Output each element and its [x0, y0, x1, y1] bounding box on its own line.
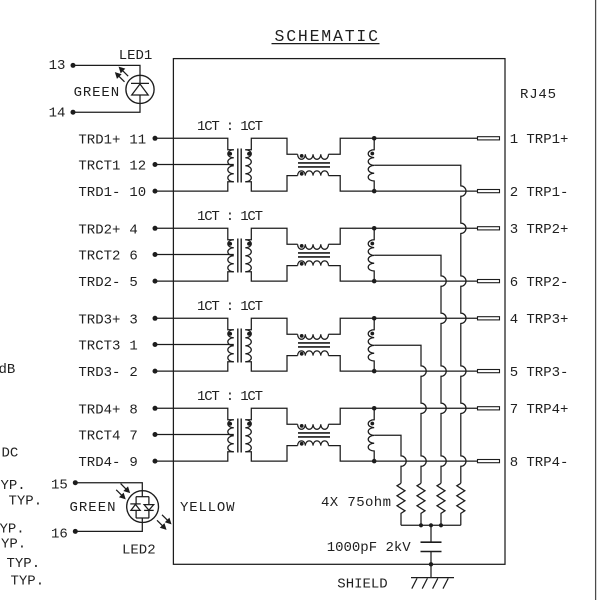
pin dot TRD3- [153, 369, 158, 374]
choke L2 bottom winding phase dot [300, 262, 304, 266]
pin 16 dot [73, 529, 78, 534]
transformer T3 secondary winding [245, 330, 251, 362]
svg-text:6: 6 [129, 249, 137, 265]
LED2 right branch wire [148, 497, 150, 518]
svg-text:11: 11 [129, 132, 146, 148]
pin dot TRD4+ [153, 406, 158, 411]
wire TRD3- to T3 primary bottom [155, 362, 234, 371]
svg-text:2: 2 [129, 365, 137, 381]
wire TRD4- to T4 primary bottom [155, 452, 234, 461]
pin dot TRD2+ [153, 226, 158, 231]
svg-text:9: 9 [129, 455, 137, 471]
RJ45 pad pin 3 [478, 227, 500, 230]
choke L3 bottom winding phase dot [300, 352, 304, 356]
termination winding A1 phase dot [370, 152, 374, 156]
svg-text:TRD1+: TRD1+ [78, 132, 120, 148]
choke L1 top winding [298, 154, 329, 159]
svg-text:TRP4-: TRP4- [526, 455, 568, 471]
svg-text:4: 4 [510, 312, 518, 328]
wire termination A4 center tap to resistor R4 (with wire hops) [374, 435, 406, 483]
svg-text:TRD1-: TRD1- [78, 185, 120, 201]
termination winding A4 phase dot [370, 422, 374, 426]
svg-text:8: 8 [510, 455, 518, 471]
svg-text:TRP1-: TRP1- [526, 185, 568, 201]
choke L1 core [298, 162, 330, 164]
svg-text:1: 1 [510, 132, 518, 148]
wire TRD4+ to T4 primary top [155, 408, 234, 420]
wire pin13 to LED1 [73, 65, 140, 83]
junction dot top of termination winding A2 [372, 226, 377, 231]
transformer T2 secondary phase dot [247, 242, 251, 246]
wire shield to ground [430, 564, 432, 577]
svg-text:15: 15 [51, 478, 68, 494]
choke L2 top winding [298, 244, 329, 249]
transformer T2 core [237, 239, 239, 273]
wire TRD3+ to T3 primary top [155, 318, 234, 330]
pin dot TRCT1 [153, 162, 158, 167]
transformer T1 secondary phase dot [247, 152, 251, 156]
svg-text:TRD2-: TRD2- [78, 275, 120, 291]
svg-text:TRCT1: TRCT1 [78, 159, 120, 175]
wire bus to capacitor C1 [430, 525, 432, 542]
junction dot bottom of termination winding A3 [372, 369, 377, 374]
svg-text:4X 75ohm: 4X 75ohm [321, 495, 391, 511]
LED1 circle [126, 75, 154, 103]
svg-text:5: 5 [129, 275, 137, 291]
svg-text:TRCT2: TRCT2 [78, 249, 120, 265]
pin dot TRD2- [153, 279, 158, 284]
termination winding A3 phase dot [370, 332, 374, 336]
svg-text:TRD3+: TRD3+ [78, 312, 120, 328]
choke L2 bottom winding [298, 261, 329, 266]
transformer T2 primary phase dot [228, 242, 232, 246]
choke L4 top winding [298, 424, 329, 429]
transformer T4 secondary winding [245, 420, 251, 452]
choke L2 core [298, 252, 330, 254]
RJ45 pad pin 7 [478, 407, 500, 410]
LED2 light arrow d [157, 520, 163, 526]
wire TRCT4 to T4 primary center tap [155, 434, 234, 436]
LED1 diode triangle [132, 84, 149, 95]
choke L2 top winding phase dot [300, 244, 304, 248]
pin dot TRD1+ [153, 136, 158, 141]
choke L1 bottom winding phase dot [300, 172, 304, 176]
LED1 light arrow a [119, 76, 125, 82]
RJ45 pad pin 6 [478, 280, 500, 283]
choke L4 bottom winding phase dot [300, 442, 304, 446]
transformer T4 primary winding [228, 420, 234, 452]
svg-text:1CT : 1CT: 1CT : 1CT [197, 119, 263, 135]
termination winding A4 [368, 408, 374, 461]
termination winding A3 [368, 318, 374, 371]
wire choke L3 top to RJ45 pad 4 [329, 318, 478, 334]
transformer T4 core [237, 419, 239, 453]
wire T1 secondary bottom to choke L1 [245, 176, 297, 192]
wire T2 secondary bottom to choke L2 [245, 266, 297, 282]
svg-text:TRP2-: TRP2- [526, 275, 568, 291]
choke L3 bottom winding [298, 351, 329, 356]
choke L4 top winding phase dot [300, 424, 304, 428]
svg-text:YP.: YP. [0, 521, 25, 537]
pin dot TRCT2 [153, 252, 158, 257]
RJ45 pad pin 8 [478, 460, 500, 463]
svg-text:TYP.: TYP. [9, 493, 43, 509]
svg-text:TRP1+: TRP1+ [526, 132, 568, 148]
transformer T1 primary phase dot [228, 152, 232, 156]
transformer T3 primary winding [228, 330, 234, 362]
svg-text:16: 16 [51, 526, 68, 542]
wire choke L2 top to RJ45 pad 3 [329, 228, 478, 244]
pin dot TRCT4 [153, 432, 158, 437]
termination winding A1 [368, 138, 374, 191]
svg-text:LED2: LED2 [122, 542, 156, 558]
transformer T4 primary phase dot [228, 422, 232, 426]
svg-text:dB: dB [0, 362, 15, 378]
svg-text:8: 8 [129, 402, 137, 418]
junction dot top of termination winding A4 [372, 406, 377, 411]
choke L3 top winding [298, 334, 329, 339]
wire T3 secondary top to choke L3 [245, 318, 297, 334]
wire choke L1 bottom to RJ45 pad 2 [329, 176, 478, 192]
bus junction dot b [429, 523, 433, 527]
svg-text:TRP3+: TRP3+ [526, 312, 568, 328]
LED2 light arrow b [116, 490, 122, 496]
junction dot bottom of termination winding A1 [372, 189, 377, 194]
RJ45 pad pin 2 [478, 190, 500, 193]
svg-text:TYP.: TYP. [7, 556, 41, 572]
wire TRD2+ to T2 primary top [155, 228, 234, 240]
wire pin15 to LED2 [75, 483, 142, 497]
svg-text:TRP3-: TRP3- [526, 365, 568, 381]
transformer T4 secondary phase dot [247, 422, 251, 426]
LED1 cathode bar [131, 82, 149, 84]
wire choke L2 bottom to RJ45 pad 6 [329, 266, 478, 282]
pin dot TRCT3 [153, 342, 158, 347]
svg-text:YP.: YP. [1, 537, 26, 553]
svg-text:6: 6 [510, 275, 518, 291]
svg-text:7: 7 [510, 402, 518, 418]
choke L4 core [298, 432, 330, 434]
wire pin14 to LED1 [73, 95, 140, 112]
wire TRD2- to T2 primary bottom [155, 272, 234, 281]
wire termination A2 center tap to resistor R2 (with wire hops) [374, 255, 446, 483]
svg-text:1CT : 1CT: 1CT : 1CT [197, 299, 263, 315]
RJ45 pad pin 5 [478, 370, 500, 373]
transformer T1 core [237, 149, 239, 183]
svg-text:LED1: LED1 [119, 48, 153, 64]
choke L1 bottom winding [298, 171, 329, 176]
termination winding A2 phase dot [370, 242, 374, 246]
pin dot TRD1- [153, 189, 158, 194]
RJ45 pad pin 1 [478, 137, 500, 140]
svg-text:TRP4+: TRP4+ [526, 402, 568, 418]
wire choke L4 bottom to RJ45 pad 8 [329, 446, 478, 462]
bus junction dot a [419, 523, 423, 527]
transformer T2 primary winding [228, 240, 234, 272]
pin dot TRD4- [153, 459, 158, 464]
LED2 yellow diode (down) [144, 505, 154, 511]
svg-text:TRP2+: TRP2+ [526, 222, 568, 238]
svg-text:7: 7 [129, 429, 137, 445]
wire T3 secondary bottom to choke L3 [245, 356, 297, 372]
wire choke L4 top to RJ45 pad 7 [329, 408, 478, 424]
resistor bottom bus wire [401, 524, 461, 526]
wire termination A1 center tap to resistor R1 (with wire hops) [374, 165, 466, 483]
svg-text:12: 12 [129, 159, 146, 175]
RJ45 pad pin 4 [478, 317, 500, 320]
wire choke L3 bottom to RJ45 pad 5 [329, 356, 478, 372]
svg-text:RJ45: RJ45 [520, 87, 556, 103]
junction dot on shield line [429, 562, 433, 566]
svg-text:3: 3 [510, 222, 518, 238]
svg-text:YELLOW: YELLOW [180, 500, 235, 516]
svg-text:14: 14 [49, 105, 66, 121]
svg-text:1CT : 1CT: 1CT : 1CT [197, 209, 263, 225]
svg-text:3: 3 [129, 312, 137, 328]
junction dot top of termination winding A3 [372, 316, 377, 321]
capacitor C1 [421, 541, 442, 543]
transformer T1 secondary winding [245, 150, 251, 182]
pin 14 dot [71, 110, 76, 115]
svg-text:TRD4-: TRD4- [78, 455, 120, 471]
LED2 circle [127, 491, 159, 523]
transformer T2 secondary winding [245, 240, 251, 272]
svg-text:GREEN: GREEN [70, 500, 116, 516]
transformer T3 core [237, 329, 239, 363]
wire TRD1- to T1 primary bottom [155, 182, 234, 191]
svg-text:TRD2+: TRD2+ [78, 222, 120, 238]
transformer T3 secondary phase dot [247, 332, 251, 336]
transformer T1 primary winding [228, 150, 234, 182]
choke L4 bottom winding [298, 441, 329, 446]
LED2 light arrow c [162, 515, 168, 521]
transformer T3 primary phase dot [228, 332, 232, 336]
wire T2 secondary top to choke L2 [245, 228, 297, 244]
LED2 light arrow a [121, 484, 127, 490]
termination winding A2 [368, 228, 374, 281]
svg-text:1: 1 [129, 339, 137, 355]
svg-text:TRCT4: TRCT4 [78, 429, 120, 445]
svg-text:1000pF 2kV: 1000pF 2kV [327, 540, 412, 556]
junction dot top of termination winding A1 [372, 136, 377, 141]
svg-text:YP.: YP. [1, 478, 26, 494]
wire TRD1+ to T1 primary top [155, 138, 234, 150]
bus junction dot c [439, 523, 443, 527]
svg-text:4: 4 [129, 222, 137, 238]
svg-text:TRCT3: TRCT3 [78, 339, 120, 355]
pin dot TRD3+ [153, 316, 158, 321]
svg-text:5: 5 [510, 365, 518, 381]
LED2 bottom rail [136, 517, 149, 519]
resistor R2 75ohm [437, 483, 445, 525]
svg-text:TYP.: TYP. [11, 573, 45, 589]
pin 15 dot [73, 480, 78, 485]
svg-text:2: 2 [510, 185, 518, 201]
page border line [595, 0, 597, 600]
resistor R4 75ohm [397, 483, 405, 525]
component outline box [173, 59, 505, 565]
wire pin16 to LED2 [75, 518, 142, 531]
choke L3 core [298, 342, 330, 344]
wire choke L1 top to RJ45 pad 1 [329, 138, 478, 154]
choke L1 top winding phase dot [300, 154, 304, 158]
title underline [272, 43, 380, 45]
junction dot bottom of termination winding A2 [372, 279, 377, 284]
LED1 light arrow b [122, 70, 128, 76]
resistor R3 75ohm [417, 483, 425, 525]
wire TRCT2 to T2 primary center tap [155, 254, 234, 256]
wire termination A3 center tap to resistor R3 (with wire hops) [374, 345, 426, 483]
svg-text:SHIELD: SHIELD [337, 576, 387, 592]
LED2 top rail [136, 496, 149, 498]
wire T4 secondary top to choke L4 [245, 408, 297, 424]
svg-text:1CT : 1CT: 1CT : 1CT [197, 389, 263, 405]
wire capacitor C1 to shield [430, 552, 432, 565]
resistor R1 75ohm [457, 483, 465, 525]
LED2 green diode (up) [130, 503, 140, 505]
svg-text:TRD4+: TRD4+ [78, 402, 120, 418]
pin 13 dot [71, 63, 76, 68]
svg-text:TRD3-: TRD3- [78, 365, 120, 381]
svg-text:10: 10 [129, 185, 146, 201]
ground symbol [411, 577, 454, 579]
choke L3 top winding phase dot [300, 334, 304, 338]
wire TRCT3 to T3 primary center tap [155, 344, 234, 346]
junction dot bottom of termination winding A4 [372, 459, 377, 464]
svg-text:13: 13 [49, 58, 66, 74]
wire T4 secondary bottom to choke L4 [245, 446, 297, 462]
svg-text:GREEN: GREEN [74, 85, 120, 101]
svg-text:DC: DC [2, 445, 19, 461]
wire T1 secondary top to choke L1 [245, 138, 297, 154]
LED2 left branch wire [135, 497, 137, 518]
wire TRCT1 to T1 primary center tap [155, 164, 234, 166]
